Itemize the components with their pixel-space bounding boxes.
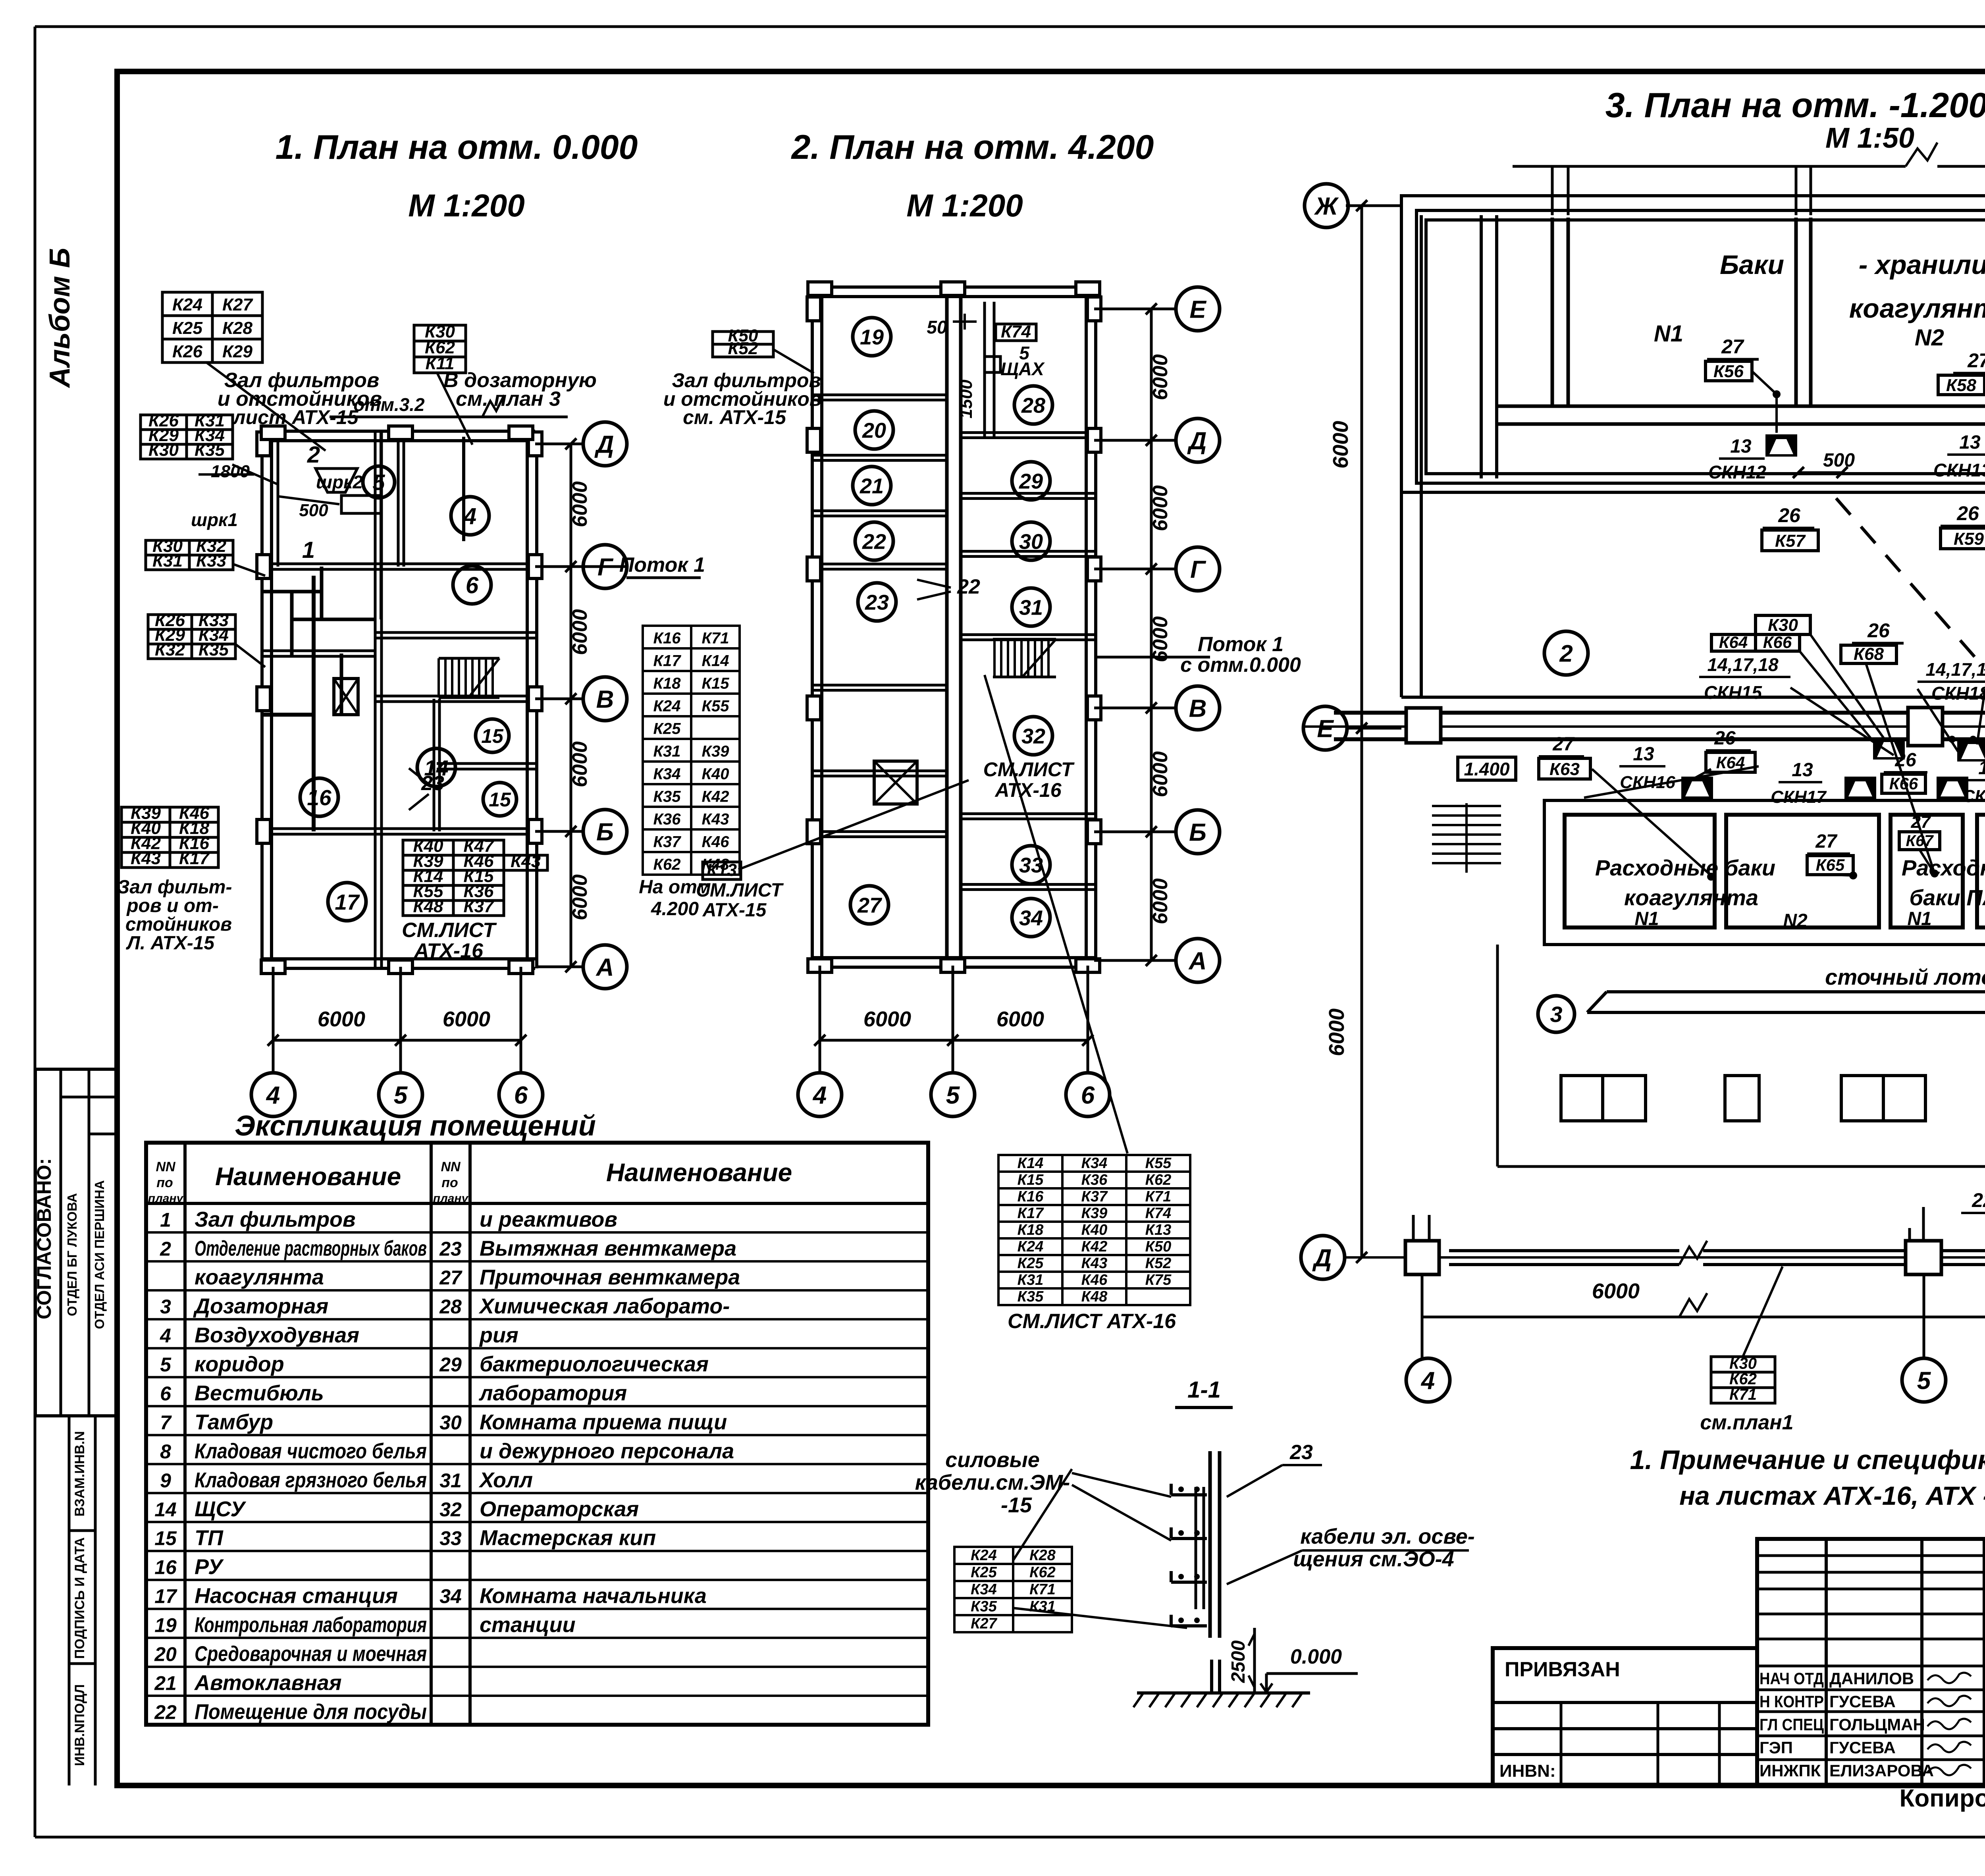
svg-text:4: 4 [463,503,476,529]
svg-text:ИНВ.NПОДЛ: ИНВ.NПОДЛ [72,1684,87,1766]
svg-text:К68: К68 [1854,644,1884,664]
svg-text:22: 22 [957,575,980,598]
explication table grid [146,1143,928,1725]
svg-text:стойников: стойников [125,914,232,935]
svg-text:6: 6 [1081,1082,1095,1109]
svg-text:К37: К37 [1081,1188,1108,1205]
plan2 left rooms walls [814,393,947,396]
k-table K50 [713,332,773,357]
svg-text:К62: К62 [653,856,680,873]
svg-text:N1: N1 [1654,321,1683,347]
cluster k boxes [1756,615,1810,634]
svg-text:Мастерская кип: Мастерская кип [480,1526,656,1550]
svg-text:27: 27 [1911,812,1931,832]
svg-text:31: 31 [1019,596,1043,619]
svg-text:17: 17 [154,1585,177,1608]
room 22 [855,522,893,560]
svg-text:РУ: РУ [195,1555,224,1579]
svg-text:17: 17 [335,890,360,914]
svg-text:К24: К24 [971,1547,997,1564]
svg-text:кабели.см.ЭМ-: кабели.см.ЭМ- [915,1471,1070,1494]
room 34 [1012,898,1050,937]
room 29 [1012,462,1050,500]
svg-text:К56: К56 [1713,362,1744,381]
svg-text:1.400: 1.400 [1464,759,1510,779]
svg-text:К37: К37 [653,833,681,850]
svg-text:К16: К16 [1018,1188,1044,1205]
room 30 [1012,522,1050,560]
svg-text:1: 1 [160,1209,171,1231]
svg-text:ИНЖПК: ИНЖПК [1760,1761,1821,1780]
svg-text:К16: К16 [653,629,681,647]
svg-text:Н КОНТР: Н КОНТР [1760,1692,1824,1711]
corridor sensor a [1873,737,1905,760]
svg-text:К65: К65 [1816,856,1845,874]
svg-text:Баки: Баки [1720,250,1784,280]
svg-text:плану: плану [148,1192,184,1205]
svg-text:6000: 6000 [1149,485,1172,531]
svg-text:К25: К25 [653,720,681,737]
svg-text:коагулянта: коагулянта [1624,885,1758,910]
svg-text:см. план 3: см. план 3 [456,388,561,411]
svg-text:СКН17: СКН17 [1771,787,1827,807]
svg-text:3. План на отм. -1.200, 0.000: 3. План на отм. -1.200, 0.000 [1605,85,1985,125]
plan2 vertical dim line [1150,309,1153,960]
svg-text:Дозаторная: Дозаторная [193,1294,328,1318]
privyazan box [1493,1648,1757,1785]
svg-text:21: 21 [860,474,884,498]
svg-text:23: 23 [1289,1441,1313,1464]
svg-text:14,17,18: 14,17,18 [1925,659,1985,680]
svg-text:2500: 2500 [1228,1640,1249,1683]
svg-text:27: 27 [1815,831,1838,852]
svg-text:ГОЛЬЦМАН: ГОЛЬЦМАН [1829,1715,1925,1734]
svg-text:Вытяжная венткамера: Вытяжная венткамера [480,1236,736,1260]
svg-text:СМ.ЛИСТ: СМ.ЛИСТ [983,758,1075,781]
svg-text:Комната начальника: Комната начальника [480,1584,707,1608]
svg-text:К75: К75 [1145,1272,1172,1288]
room 16 [300,778,338,816]
svg-text:28: 28 [439,1296,462,1318]
svg-text:2: 2 [1559,640,1573,667]
k-table C [141,415,233,459]
svg-text:К48: К48 [1081,1288,1108,1305]
room 14 [417,748,455,787]
svg-text:К17: К17 [1018,1205,1044,1222]
svg-text:NN: NN [156,1159,176,1174]
svg-text:Зал фильт-: Зал фильт- [118,877,232,898]
inventory strip [68,1416,71,1785]
svg-text:Насосная станция: Насосная станция [195,1584,398,1608]
svg-text:26: 26 [1867,619,1890,642]
svg-text:5: 5 [160,1353,172,1376]
svg-text:К14: К14 [1018,1155,1044,1172]
plan1 axis lines right [535,443,583,445]
svg-text:на листах АТХ-16, АТХ -18: на листах АТХ-16, АТХ -18 [1679,1481,1985,1510]
svg-text:К17: К17 [179,849,210,868]
svg-text:Отделение растворных баков: Отделение растворных баков [195,1236,427,1260]
svg-text:АТХ-16: АТХ-16 [994,779,1062,801]
svg-text:Наименование: Наименование [606,1158,792,1187]
svg-text:13: 13 [1959,432,1981,453]
room 27 [850,886,888,924]
plan1 shrk2 [316,469,357,492]
svg-text:6000: 6000 [569,874,592,920]
svg-text:4: 4 [266,1082,280,1109]
svg-text:ОТДЕЛ АСИ ПЕРШИНА: ОТДЕЛ АСИ ПЕРШИНА [92,1180,107,1329]
svg-text:ЕЛИЗАРОВА: ЕЛИЗАРОВА [1829,1761,1934,1780]
k30/62/71 table [1711,1357,1775,1403]
svg-text:22: 22 [862,530,886,553]
svg-text:Воздуходувная: Воздуходувная [195,1323,359,1347]
leader B [437,372,472,445]
column squares row [1561,1076,1603,1121]
svg-text:К43: К43 [511,852,541,871]
svg-text:К30: К30 [148,440,179,460]
svg-text:1800: 1800 [211,462,250,481]
svg-text:500: 500 [1823,450,1855,471]
svg-text:К39: К39 [1081,1205,1108,1222]
svg-text:Е: Е [1317,715,1334,742]
svg-text:4: 4 [1420,1367,1435,1394]
svg-text:ДАНИЛОВ: ДАНИЛОВ [1829,1669,1914,1688]
svg-text:К43: К43 [701,810,729,828]
svg-text:и дежурного персонала: и дежурного персонала [480,1439,734,1463]
svg-text:6000: 6000 [863,1007,911,1031]
svg-text:бактериологическая: бактериологическая [480,1352,709,1376]
svg-text:Ж: Ж [1314,193,1339,220]
svg-text:К64: К64 [1719,633,1748,652]
svg-text:2. План на отм. 4.200: 2. План на отм. 4.200 [791,128,1154,166]
svg-text:ГЭП: ГЭП [1760,1738,1793,1757]
svg-text:31: 31 [439,1469,462,1492]
svg-text:К43: К43 [1081,1255,1108,1272]
svg-text:К71: К71 [1729,1386,1757,1403]
svg-text:Альбом Б: Альбом Б [44,248,76,388]
svg-text:шрк2: шрк2 [316,472,363,492]
svg-text:3: 3 [160,1296,171,1318]
dashed diagonals [1836,498,1985,687]
svg-text:К37: К37 [464,897,495,916]
plan1 stairs [437,658,440,698]
D axis band [1346,1256,1985,1259]
svg-text:М 1:50: М 1:50 [1825,122,1914,154]
svg-text:В: В [1189,695,1207,722]
svg-text:6000: 6000 [1149,878,1172,924]
svg-text:N1: N1 [1907,908,1931,929]
svg-text:Кладовая чистого белья: Кладовая чистого белья [195,1439,427,1463]
svg-text:СМ.ЛИСТ АТХ-16: СМ.ЛИСТ АТХ-16 [1008,1310,1176,1333]
plan1 internal walls [264,563,535,565]
svg-text:20: 20 [862,418,886,442]
svg-text:К26: К26 [172,342,203,361]
svg-text:6000: 6000 [996,1007,1044,1031]
svg-text:К71: К71 [701,629,729,647]
svg-text:Б: Б [1189,819,1206,846]
svg-text:К46: К46 [1081,1272,1108,1288]
svg-text:Химическая лаборато-: Химическая лаборато- [478,1294,730,1318]
svg-text:А: А [595,954,614,981]
svg-text:ЩАХ: ЩАХ [1000,359,1045,379]
section k-table big [998,1155,1190,1305]
svg-text:станции: станции [480,1613,576,1637]
svg-text:34: 34 [1019,906,1043,930]
svg-text:Поток 1: Поток 1 [619,553,705,576]
k-table F [121,807,218,868]
svg-text:К42: К42 [701,788,729,805]
svg-text:50: 50 [927,317,947,337]
svg-text:К36: К36 [653,810,681,828]
svg-text:N2: N2 [1783,910,1808,931]
svg-text:27: 27 [857,893,883,917]
svg-text:К18: К18 [653,675,681,692]
stairs left [1432,805,1501,807]
svg-text:8: 8 [160,1440,171,1463]
1.400 box [1458,757,1516,780]
svg-text:16: 16 [154,1556,177,1579]
svg-text:ПРИВЯЗАН: ПРИВЯЗАН [1505,1658,1620,1681]
svg-text:6: 6 [514,1082,528,1109]
svg-text:На отм: На отм [639,877,711,898]
svg-text:шрк1: шрк1 [191,509,238,530]
plan1 bottom dims [272,967,275,1072]
svg-text:К28: К28 [222,318,253,338]
room 28 [1014,386,1052,424]
svg-text:по: по [156,1175,173,1190]
svg-text:1-1: 1-1 [1187,1377,1221,1403]
svg-text:27: 27 [439,1267,463,1289]
svg-text:К34: К34 [653,765,680,783]
svg-text:Поток 1: Поток 1 [1198,633,1284,656]
svg-text:коагулянта: коагулянта [195,1265,324,1289]
svg-text:Приточная венткамера: Приточная венткамера [480,1265,740,1289]
svg-text:К30: К30 [1729,1355,1757,1372]
room 6 [453,566,491,604]
svg-text:К35: К35 [1018,1288,1044,1305]
svg-text:ПОДПИСЬ И ДАТА: ПОДПИСЬ И ДАТА [72,1537,87,1659]
k-table G [403,840,504,916]
svg-text:К14: К14 [701,652,729,669]
room 31 [1012,588,1050,626]
svg-text:К74: К74 [1001,322,1031,341]
svg-text:коагулянта: коагулянта [1849,293,1985,324]
svg-text:К35: К35 [195,440,225,460]
svg-text:Копировал· Коршунова: Копировал· Коршунова [1900,1785,1985,1812]
svg-text:14: 14 [154,1498,177,1521]
tank cells [1551,218,1554,406]
svg-text:ТП: ТП [195,1526,224,1550]
corridor sensor b [1957,739,1985,762]
k-table A [162,292,262,362]
svg-text:кабели эл. осве-: кабели эл. осве- [1300,1525,1474,1548]
svg-text:5: 5 [394,1082,408,1109]
svg-text:К63: К63 [1549,760,1580,779]
room 23 [858,583,896,621]
plan2 shaft [874,761,917,804]
svg-text:К13: К13 [1145,1222,1172,1238]
room 5 [363,466,395,498]
svg-text:лист АТХ-15: лист АТХ-15 [232,406,358,428]
svg-text:К67: К67 [1906,832,1934,850]
svg-text:2: 2 [160,1238,171,1260]
svg-text:13: 13 [1633,744,1654,765]
svg-text:АТХ-15: АТХ-15 [702,900,767,921]
svg-text:6: 6 [160,1382,172,1405]
svg-text:ГУСЕВА: ГУСЕВА [1829,1738,1896,1757]
svg-text:1. Примечание и спецификаци: 1. Примечание и спецификацию см. [1630,1445,1985,1475]
svg-text:К33: К33 [196,551,226,571]
svg-text:30: 30 [1019,530,1043,553]
svg-text:К31: К31 [152,551,183,571]
plan3 left dim [1361,206,1363,1257]
svg-text:К48: К48 [701,856,729,873]
zone 2 circle [1544,631,1588,675]
svg-text:М 1:200: М 1:200 [408,188,524,223]
svg-text:Экспликация помещений: Экспликация помещений [235,1110,596,1142]
room 21 [853,467,891,505]
room 20 [855,411,893,449]
svg-text:НАЧ ОТД: НАЧ ОТД [1760,1669,1824,1688]
plan3 tank room outer [1401,196,1985,492]
svg-text:сточный лоток: сточный лоток [1825,964,1985,989]
svg-text:К35: К35 [971,1598,997,1615]
svg-text:К40: К40 [701,765,729,783]
duct line [983,302,986,437]
title block [1757,1539,1985,1785]
svg-text:N2: N2 [1915,325,1944,351]
svg-text:Наименование: Наименование [215,1162,401,1191]
svg-text:К27: К27 [971,1616,997,1632]
svg-text:Помещение для посуды: Помещение для посуды [195,1700,427,1724]
svg-text:-15: -15 [1001,1493,1032,1517]
svg-text:13: 13 [1730,436,1752,457]
svg-text:32: 32 [439,1498,462,1521]
svg-text:6000: 6000 [569,741,592,787]
svg-text:22: 22 [1972,1189,1985,1211]
svg-text:4: 4 [812,1082,827,1109]
svg-text:К17: К17 [653,652,681,669]
svg-text:К71: К71 [1145,1188,1172,1205]
E axis corridor [1401,696,1985,699]
svg-text:ГУСЕВА: ГУСЕВА [1829,1692,1896,1711]
svg-text:К42: К42 [1081,1238,1108,1255]
long leader to k-table [985,675,1127,1153]
svg-text:22: 22 [154,1701,177,1723]
svg-text:5: 5 [1917,1367,1931,1394]
svg-text:ЩСУ: ЩСУ [195,1497,246,1521]
lower room band [1544,800,1985,945]
svg-text:6000: 6000 [1325,1008,1349,1056]
room 4 [451,497,489,535]
svg-text:К66: К66 [1763,633,1792,652]
plan2 stairs [993,639,996,677]
svg-text:6000: 6000 [443,1007,490,1031]
svg-text:ров и от-: ров и от- [126,895,219,916]
svg-text:К25: К25 [172,318,203,338]
svg-text:К71: К71 [1029,1581,1056,1598]
svg-text:Расходные: Расходные [1902,855,1985,880]
svg-text:К30: К30 [1768,615,1798,635]
svg-text:29: 29 [439,1353,462,1376]
svg-text:К35: К35 [653,788,681,805]
svg-text:9: 9 [160,1469,171,1492]
svg-text:К32: К32 [155,640,185,659]
svg-text:5: 5 [372,470,385,495]
svg-text:СКН12: СКН12 [1708,462,1766,482]
plan2 corridor [945,289,949,966]
svg-text:К29: К29 [222,342,253,361]
svg-text:К34: К34 [1081,1155,1108,1172]
svg-text:21: 21 [154,1672,177,1694]
svg-text:К25: К25 [1018,1255,1044,1272]
svg-text:Автоклавная: Автоклавная [194,1671,342,1695]
svg-text:К34: К34 [971,1581,997,1598]
plan1 wall column marks [257,432,270,456]
svg-text:1. План на отм. 0.000: 1. План на отм. 0.000 [276,128,638,166]
svg-text:Д: Д [1312,1244,1332,1272]
svg-text:СКН15: СКН15 [1704,682,1762,703]
svg-text:К15: К15 [1018,1172,1044,1188]
svg-text:6: 6 [466,573,479,598]
svg-text:К62: К62 [1145,1172,1172,1188]
svg-text:В: В [596,686,614,713]
svg-text:Вестибюль: Вестибюль [195,1381,324,1405]
svg-text:6000: 6000 [1149,751,1172,797]
svg-text:27: 27 [1721,335,1744,358]
room 33 [1012,846,1050,884]
svg-text:К62: К62 [1729,1370,1757,1388]
svg-text:Холл: Холл [478,1468,533,1492]
svg-text:Г: Г [1190,556,1206,583]
svg-text:29: 29 [1019,469,1043,493]
section tray [1208,1451,1212,1638]
outer page border [35,25,1985,28]
svg-text:16: 16 [307,785,331,810]
svg-text:15: 15 [481,725,504,747]
svg-text:К18: К18 [1018,1222,1044,1238]
svg-text:26: 26 [1778,504,1801,526]
svg-text:0.000: 0.000 [1290,1645,1342,1668]
svg-text:К59: К59 [1954,529,1984,549]
svg-text:силовые: силовые [945,1448,1040,1472]
svg-text:20: 20 [154,1643,177,1666]
svg-text:К48: К48 [413,897,444,916]
svg-text:27: 27 [1552,734,1575,755]
svg-text:К31: К31 [1018,1272,1044,1288]
svg-text:30: 30 [439,1411,462,1434]
svg-text:К43: К43 [131,849,161,868]
plan1 top dim [330,416,568,418]
svg-text:NN: NN [441,1159,461,1174]
svg-text:4.200: 4.200 [651,898,699,920]
k-table E [148,615,235,659]
svg-text:К24: К24 [653,697,680,715]
svg-text:6000: 6000 [1149,616,1172,662]
svg-text:К46: К46 [701,833,729,850]
svg-text:26: 26 [1714,728,1736,749]
plan2 wall column marks [807,297,821,321]
svg-text:СКН18: СКН18 [1931,683,1985,704]
svg-text:23: 23 [439,1238,462,1260]
svg-text:М 1:200: М 1:200 [906,188,1023,223]
svg-text:Тамбур: Тамбур [195,1410,273,1434]
svg-text:К24: К24 [172,295,202,314]
svg-text:14,17,18: 14,17,18 [1707,654,1778,675]
plan2 axes [1094,308,1176,310]
svg-text:34: 34 [439,1585,462,1608]
svg-text:К27: К27 [222,295,254,314]
svg-text:19: 19 [154,1614,177,1637]
